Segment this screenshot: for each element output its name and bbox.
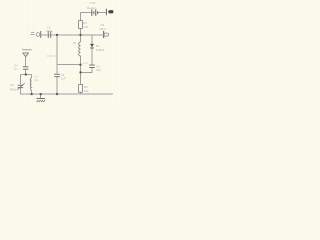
microphone sound waves [30, 32, 34, 34]
svg-text:0.7V: 0.7V [83, 61, 89, 65]
svg-text:1n: 1n [14, 67, 18, 71]
ground symbol [37, 99, 45, 103]
coil L1 (middle column) [79, 42, 81, 56]
capacitor C3 label [96, 65, 101, 73]
node dot ground stub [40, 93, 42, 95]
svg-text:10uF: 10uF [99, 27, 106, 31]
earphone bar [103, 31, 104, 38]
svg-text:1m: 1m [35, 78, 40, 82]
node C dot x80.5 y72 [80, 71, 82, 73]
wire: cap to corner and left y72 [81, 68, 93, 73]
wire: mid rail y64 [57, 64, 81, 66]
wire: main column top [80, 13, 82, 21]
variable capacitor VC1 plates [18, 85, 23, 88]
wire: diode column [91, 35, 93, 45]
variable capacitor arrow [17, 83, 24, 90]
svg-text:500p: 500p [10, 88, 17, 92]
ground top right: bar [105, 9, 108, 16]
wire: varcap column [20, 75, 22, 85]
svg-text:Battery: Battery [87, 6, 97, 10]
wire: bottom rail [20, 93, 113, 95]
svg-text:10uF: 10uF [46, 29, 53, 33]
resistor R2 box [79, 85, 83, 93]
wire: x57 column [56, 35, 58, 74]
resistor R2 label [84, 85, 89, 93]
wire: diode to cap [91, 48, 93, 65]
node A dot x57 [56, 34, 58, 36]
earphone label [99, 23, 106, 31]
svg-text:10k: 10k [84, 89, 89, 93]
diode D1 [90, 44, 94, 49]
node dot x80.5 y34.5 [80, 34, 82, 36]
capacitor C4 (antenna) plates [23, 66, 28, 69]
node dot coil bottom [31, 93, 33, 95]
battery label [87, 1, 97, 10]
resistor R1 box [79, 21, 83, 29]
earphone dome [104, 33, 109, 36]
node dot x57 bottom [56, 93, 58, 95]
coil L2 label [35, 75, 40, 83]
node B dot x80.5 y64 [80, 64, 82, 66]
wire: antenna stem [25, 57, 27, 66]
wire: top rail battery left [81, 12, 92, 14]
node dot antenna join [25, 74, 27, 76]
wire: coil to mid node [80, 56, 82, 85]
svg-text:10k: 10k [83, 25, 88, 29]
microphone bar [40, 31, 41, 38]
svg-text:4.5V: 4.5V [90, 1, 96, 5]
capacitor C1 plates [48, 31, 51, 38]
battery B1 [91, 9, 98, 16]
antenna symbol [23, 53, 29, 57]
wire: coil2 column top [31, 75, 33, 79]
wire: antenna stem lower [25, 69, 27, 75]
capacitor C4 label [14, 64, 18, 72]
wire: varcap bottom [20, 88, 22, 95]
capacitor C2 (x57 column) plates [54, 74, 60, 77]
wire: coil2 bottom [31, 90, 33, 94]
variable capacitor label [10, 83, 17, 92]
resistor R1 label [83, 21, 88, 29]
svg-text:1N914: 1N914 [96, 48, 105, 52]
svg-text:10u: 10u [96, 68, 101, 72]
svg-text:1uF: 1uF [61, 77, 66, 81]
capacitor C1 label [46, 26, 53, 33]
svg-text:0.45 U0: 0.45 U0 [47, 54, 58, 58]
diode D1 label [96, 44, 105, 52]
wire: top rail battery right [98, 12, 106, 14]
capacitor C3 (x92 column) plates [89, 65, 95, 68]
microphone body [36, 33, 40, 37]
svg-text:Antenna: Antenna [22, 47, 32, 51]
ground top right: block [108, 10, 113, 13]
wire: main horizontal y34 [41, 34, 103, 36]
wire: x57 below cap [56, 77, 58, 94]
wire: tuned circuit top y74 [21, 74, 32, 76]
wire: ground stub [40, 94, 42, 99]
capacitor C2 label [61, 73, 66, 81]
wire: R1 to node [80, 29, 82, 43]
svg-text:4k: 4k [73, 41, 77, 45]
coil L2 (tuning) [30, 78, 31, 90]
wire: R2 bottom [80, 92, 82, 94]
